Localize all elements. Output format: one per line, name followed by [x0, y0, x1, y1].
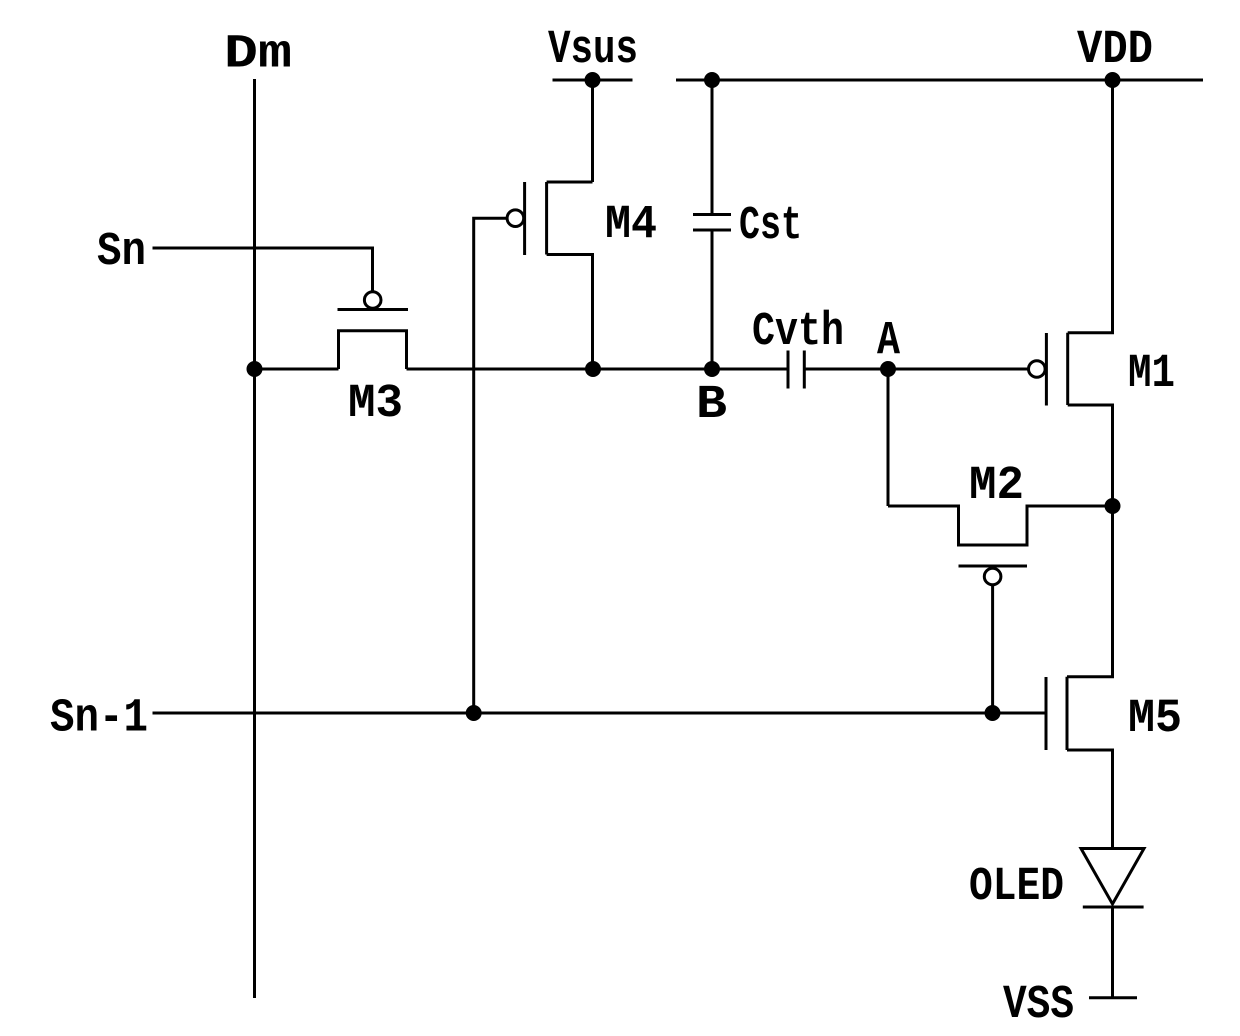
- svg-text:Dm: Dm: [224, 28, 292, 82]
- svg-text:Vsus: Vsus: [548, 23, 638, 77]
- svg-text:VSS: VSS: [1003, 978, 1074, 1032]
- svg-text:M1: M1: [1128, 347, 1175, 401]
- svg-text:M3: M3: [348, 377, 403, 431]
- svg-text:OLED: OLED: [969, 860, 1064, 914]
- svg-text:M4: M4: [605, 198, 657, 252]
- svg-text:M2: M2: [969, 459, 1024, 513]
- svg-text:Cst: Cst: [739, 199, 802, 253]
- svg-text:VDD: VDD: [1077, 23, 1153, 77]
- svg-text:A: A: [877, 314, 900, 368]
- svg-text:Cvth: Cvth: [752, 305, 844, 359]
- svg-text:M5: M5: [1128, 692, 1182, 746]
- svg-text:Sn-1: Sn-1: [50, 692, 148, 746]
- svg-text:Sn: Sn: [97, 225, 146, 279]
- svg-text:B: B: [696, 378, 727, 432]
